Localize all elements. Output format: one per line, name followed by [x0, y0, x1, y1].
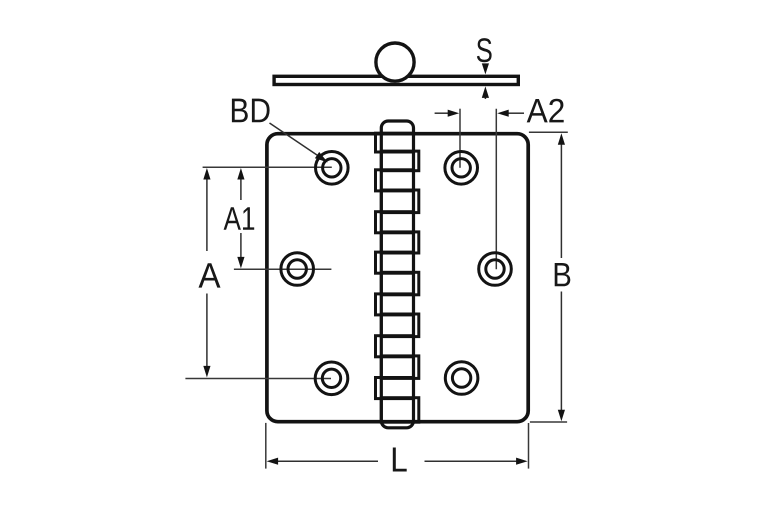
L right arrow [516, 458, 528, 465]
L left arrow [267, 458, 279, 465]
dimension L line right [425, 460, 518, 462]
hinge plate front view [267, 134, 528, 422]
label B [555, 263, 571, 286]
extension line e6 plate top right [529, 131, 568, 133]
dimension S lower arrow [484, 90, 486, 99]
extension line e3 bottom-left hole [185, 378, 331, 380]
extension line e7 plate bottom right [530, 421, 567, 423]
hole top-left [316, 152, 349, 185]
hole top-right [445, 152, 478, 185]
dimension S upper arrow [484, 65, 486, 71]
dimension A line lower [206, 294, 208, 368]
label A [199, 263, 221, 287]
dimension A2 left arrow [435, 112, 448, 114]
extension line e8 L left [265, 423, 267, 469]
label BD [232, 99, 270, 123]
label A1 [224, 207, 255, 230]
label S [477, 38, 492, 62]
BD leader arrowhead [315, 152, 328, 162]
extension line e1 top-left hole [203, 166, 332, 168]
dimension A1 line upper [240, 179, 242, 201]
A1 up arrow [237, 168, 244, 180]
BD leader line [270, 123, 325, 160]
hinge side view: knuckle circle [376, 43, 414, 81]
A up arrow [203, 168, 210, 180]
A down arrow [203, 366, 210, 378]
hole mid-right [479, 253, 512, 286]
barrel pin tube [381, 121, 413, 428]
extension line e5 mid-right hole vertical [495, 109, 497, 270]
dimension A line upper [206, 179, 208, 252]
hole bottom-right [445, 362, 478, 395]
extension line e2 mid-left hole [234, 268, 332, 270]
dimension B line lower [560, 292, 562, 412]
dimension B line upper [560, 144, 562, 258]
hole bottom-left [315, 362, 348, 395]
dimension A1 line lower [240, 233, 242, 258]
hole mid-left [281, 253, 314, 286]
A1 down arrow [237, 257, 244, 269]
label L [393, 448, 407, 472]
barrel knuckle rungs [376, 133, 419, 422]
dimension A2 right arrow [509, 112, 525, 114]
label A2 [527, 99, 564, 123]
B up arrow [558, 133, 565, 145]
dimension L line left [277, 460, 378, 462]
hinge side view: leaf bar [274, 76, 518, 84]
B down arrow [558, 410, 565, 422]
extension line e4 top-right hole vertical [459, 109, 461, 168]
extension line e9 L right [528, 423, 530, 469]
